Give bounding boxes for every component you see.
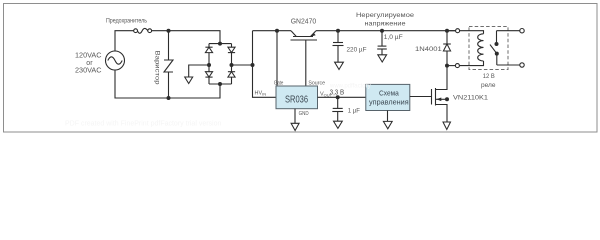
wire control block ground lead xyxy=(387,111,389,122)
diode D2 top-right (pointing down) xyxy=(228,44,235,65)
node bridge bottom xyxy=(218,82,222,86)
fuse F1 xyxy=(134,28,152,33)
node bridge left mid xyxy=(207,63,211,67)
svg-text:PDF created with FinePrint pdf: PDF created with FinePrint pdfFactory tr… xyxy=(65,121,221,128)
svg-text:1 µF: 1 µF xyxy=(348,107,360,114)
node varistor bottom junction xyxy=(167,96,171,100)
node 220uF tap xyxy=(336,29,340,33)
svg-text:230VAC: 230VAC xyxy=(75,67,102,74)
wire contact bottom stub xyxy=(497,64,520,66)
diode D1 top-left (pointing up) xyxy=(205,44,212,65)
capacitor C3 1uF xyxy=(332,97,343,121)
svg-text:GND: GND xyxy=(299,111,309,117)
svg-text:1N4001: 1N4001 xyxy=(415,46,442,53)
wire AC bottom lead xyxy=(115,70,169,98)
svg-text:Нерегулируемое: Нерегулируемое xyxy=(356,12,414,19)
svg-text:Варистор: Варистор xyxy=(154,51,161,85)
node HV junction xyxy=(251,63,255,67)
block U2 Схема управления xyxy=(366,84,410,110)
diode D3 bottom-left (pointing down) xyxy=(205,65,212,84)
wire fuse to varistor node xyxy=(152,30,169,32)
node 1uF tap xyxy=(336,95,340,99)
relay K1 dashed enclosure xyxy=(469,27,508,70)
svg-text:HVIN: HVIN xyxy=(255,90,267,96)
node 1N4001 top xyxy=(445,29,449,33)
svg-text:12 В: 12 В xyxy=(483,73,495,80)
wire top rail to bridge xyxy=(169,31,221,44)
terminal coil top xyxy=(456,29,460,33)
svg-text:напряжение: напряжение xyxy=(365,20,406,27)
bridge top bar xyxy=(209,43,232,45)
terminal contact top xyxy=(520,29,524,33)
wire relay coil top lead xyxy=(447,30,456,32)
wire bottom rail to bridge xyxy=(169,84,221,98)
terminal coil bottom xyxy=(455,64,459,68)
wire HV riser xyxy=(253,31,277,98)
svg-text:120VAC: 120VAC xyxy=(75,53,102,60)
AC source V1 120VAC/230VAC xyxy=(106,51,125,70)
svg-text:реле: реле xyxy=(481,82,496,89)
ground (C1) xyxy=(335,62,344,69)
bridge rectifier BR1 xyxy=(205,42,235,86)
node 1N4001 bottom xyxy=(445,64,449,68)
wire source rail xyxy=(316,30,456,32)
node varistor top junction xyxy=(167,29,171,33)
ground (control block) xyxy=(383,121,392,128)
transistor Q1 GN2470 xyxy=(291,31,318,86)
svg-text:or: or xyxy=(86,60,93,67)
wire gate tap down to SR036 Gate pin xyxy=(276,31,278,86)
svg-text:220 µF: 220 µF xyxy=(347,47,367,54)
svg-text:Предохранитель: Предохранитель xyxy=(106,18,148,25)
svg-text:www.pdffactory: www.pdffactory xyxy=(329,84,371,90)
svg-text:Схема: Схема xyxy=(379,91,399,98)
wire into coil top xyxy=(460,31,484,34)
svg-text:SR036: SR036 xyxy=(285,93,308,105)
node 1.0uF tap xyxy=(380,29,384,33)
node bridge top xyxy=(218,42,222,46)
bridge bottom bar xyxy=(209,83,232,85)
wire HV rail to transistor xyxy=(253,30,292,32)
capacitor C2 1.0uF xyxy=(377,31,387,55)
relay contact switch xyxy=(490,31,499,65)
label Нерегулируемое напряжение xyxy=(356,12,414,27)
ground (SR036 GND) xyxy=(291,123,299,130)
wire bridge plus to HV node xyxy=(232,64,253,66)
border frame xyxy=(4,4,598,133)
diode D5 1N4001 xyxy=(443,31,451,66)
svg-text:GN2470: GN2470 xyxy=(291,19,317,26)
transistor Q2 VN2110K1 xyxy=(432,66,450,122)
node bridge right mid xyxy=(230,63,234,67)
capacitor C1 220uF xyxy=(333,31,344,62)
label 12 В реле xyxy=(481,73,496,89)
wire GND pin xyxy=(294,109,296,124)
wire bridge minus to ground xyxy=(189,65,209,77)
wire AC top lead xyxy=(115,31,134,51)
svg-text:Gate: Gate xyxy=(274,81,284,87)
varistor RV1 xyxy=(164,31,173,98)
wire control to MOSFET gate xyxy=(410,96,432,98)
ground (bridge minus) xyxy=(185,77,193,84)
wire coil bottom lead xyxy=(459,61,483,66)
wire coil bottom to diode node xyxy=(447,65,455,67)
diode D4 bottom-right (pointing up) xyxy=(228,65,235,84)
label 120VAC or 230VAC xyxy=(75,53,102,75)
relay coil L1 xyxy=(478,34,484,61)
ground (C3) xyxy=(334,121,343,128)
wire contact top stub xyxy=(497,30,520,32)
ground (Q2 source) xyxy=(443,122,451,130)
svg-text:управления: управления xyxy=(369,99,409,106)
IC U1 SR036 xyxy=(276,86,318,109)
svg-text:1,0 µF: 1,0 µF xyxy=(384,34,403,41)
wire Vout xyxy=(318,96,366,98)
svg-text:VN2110K1: VN2110K1 xyxy=(453,94,488,101)
terminal contact bottom xyxy=(520,63,524,67)
svg-text:Source: Source xyxy=(308,81,325,87)
ground (C2) xyxy=(378,55,387,62)
node gate tap xyxy=(275,29,279,33)
